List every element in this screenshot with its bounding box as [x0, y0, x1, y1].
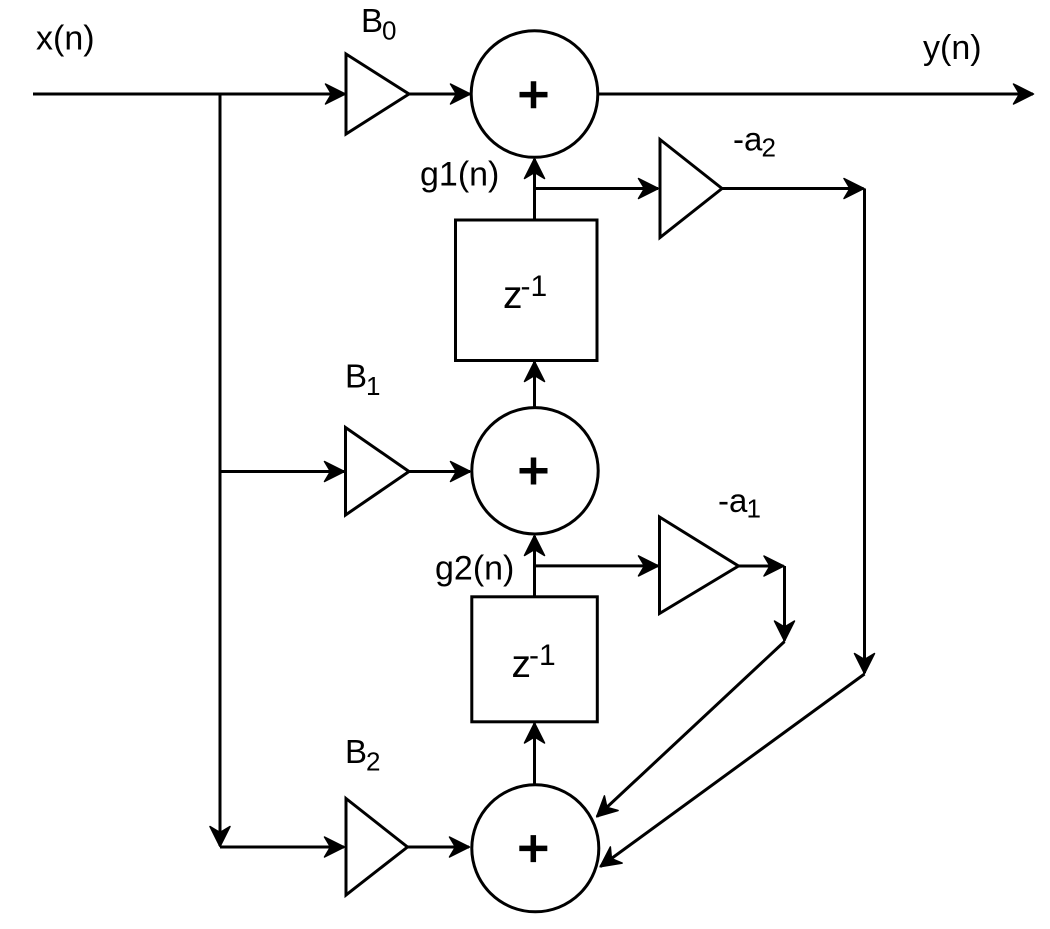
wire B0 output to summer S1 — [409, 93, 470, 96]
gain triangle -a2 — [660, 140, 722, 238]
gain triangle B2 — [346, 799, 408, 896]
wire -a2 output horizontal — [722, 187, 864, 190]
svg-text:2: 2 — [366, 747, 380, 777]
svg-text:-a: -a — [718, 482, 748, 519]
svg-text:B: B — [345, 358, 367, 395]
wire -a2 feedback diagonal to summer S3 — [601, 674, 865, 867]
svg-text:B: B — [361, 2, 383, 39]
svg-text:-1: -1 — [529, 639, 556, 672]
wire summer S2 up to Z1 — [533, 362, 536, 408]
wire -a1 feedback diagonal to summer S3 — [597, 642, 785, 817]
svg-text:-a: -a — [733, 120, 763, 157]
summer S3 circle — [472, 785, 599, 912]
svg-text:g2(n): g2(n) — [435, 550, 514, 588]
svg-text:2: 2 — [762, 133, 776, 163]
delay block Z2 — [472, 597, 598, 722]
wire B1 output to summer S2 — [409, 470, 470, 473]
wire -a1 output horizontal — [739, 565, 784, 568]
wire g1(n) branch to -a2 gain — [535, 187, 659, 190]
wire -a2 feedback vertical — [863, 189, 866, 674]
plus sign in summer S2 — [520, 458, 548, 485]
gain triangle B1 — [346, 428, 410, 516]
svg-text:g1(n): g1(n) — [420, 156, 499, 194]
svg-text:1: 1 — [747, 494, 761, 524]
summer S2 circle — [472, 408, 598, 534]
wire g2(n) branch to -a1 gain — [535, 564, 659, 567]
wire B2 row horizontal — [220, 846, 344, 849]
svg-text:1: 1 — [366, 371, 380, 401]
svg-text:B: B — [345, 733, 367, 770]
wire branch to B1 — [220, 470, 344, 473]
wire vertical branch from x(n) node down to B2 row — [219, 94, 222, 846]
wire output y(n) — [598, 93, 1034, 96]
svg-text:0: 0 — [382, 16, 396, 46]
plus sign in summer S1 — [520, 81, 548, 108]
delay block Z1 — [456, 220, 598, 361]
gain triangle B0 — [346, 54, 409, 134]
wire B2 output to summer S3 — [408, 846, 470, 849]
wire summer S3 up to Z2 — [533, 724, 536, 786]
gain triangle -a1 — [660, 517, 739, 614]
svg-text:x(n): x(n) — [36, 20, 95, 58]
svg-text:y(n): y(n) — [923, 29, 982, 67]
summer S1 circle — [471, 31, 598, 158]
wire input x(n) to B0 — [33, 93, 345, 96]
svg-text:-1: -1 — [521, 270, 548, 303]
wire g2(n) from Z2 up to summer S2 — [533, 536, 536, 597]
wire -a1 feedback vertical — [783, 566, 786, 641]
plus sign in summer S3 — [519, 835, 547, 862]
wire g1(n) from Z1 up to summer S1 — [533, 159, 536, 220]
